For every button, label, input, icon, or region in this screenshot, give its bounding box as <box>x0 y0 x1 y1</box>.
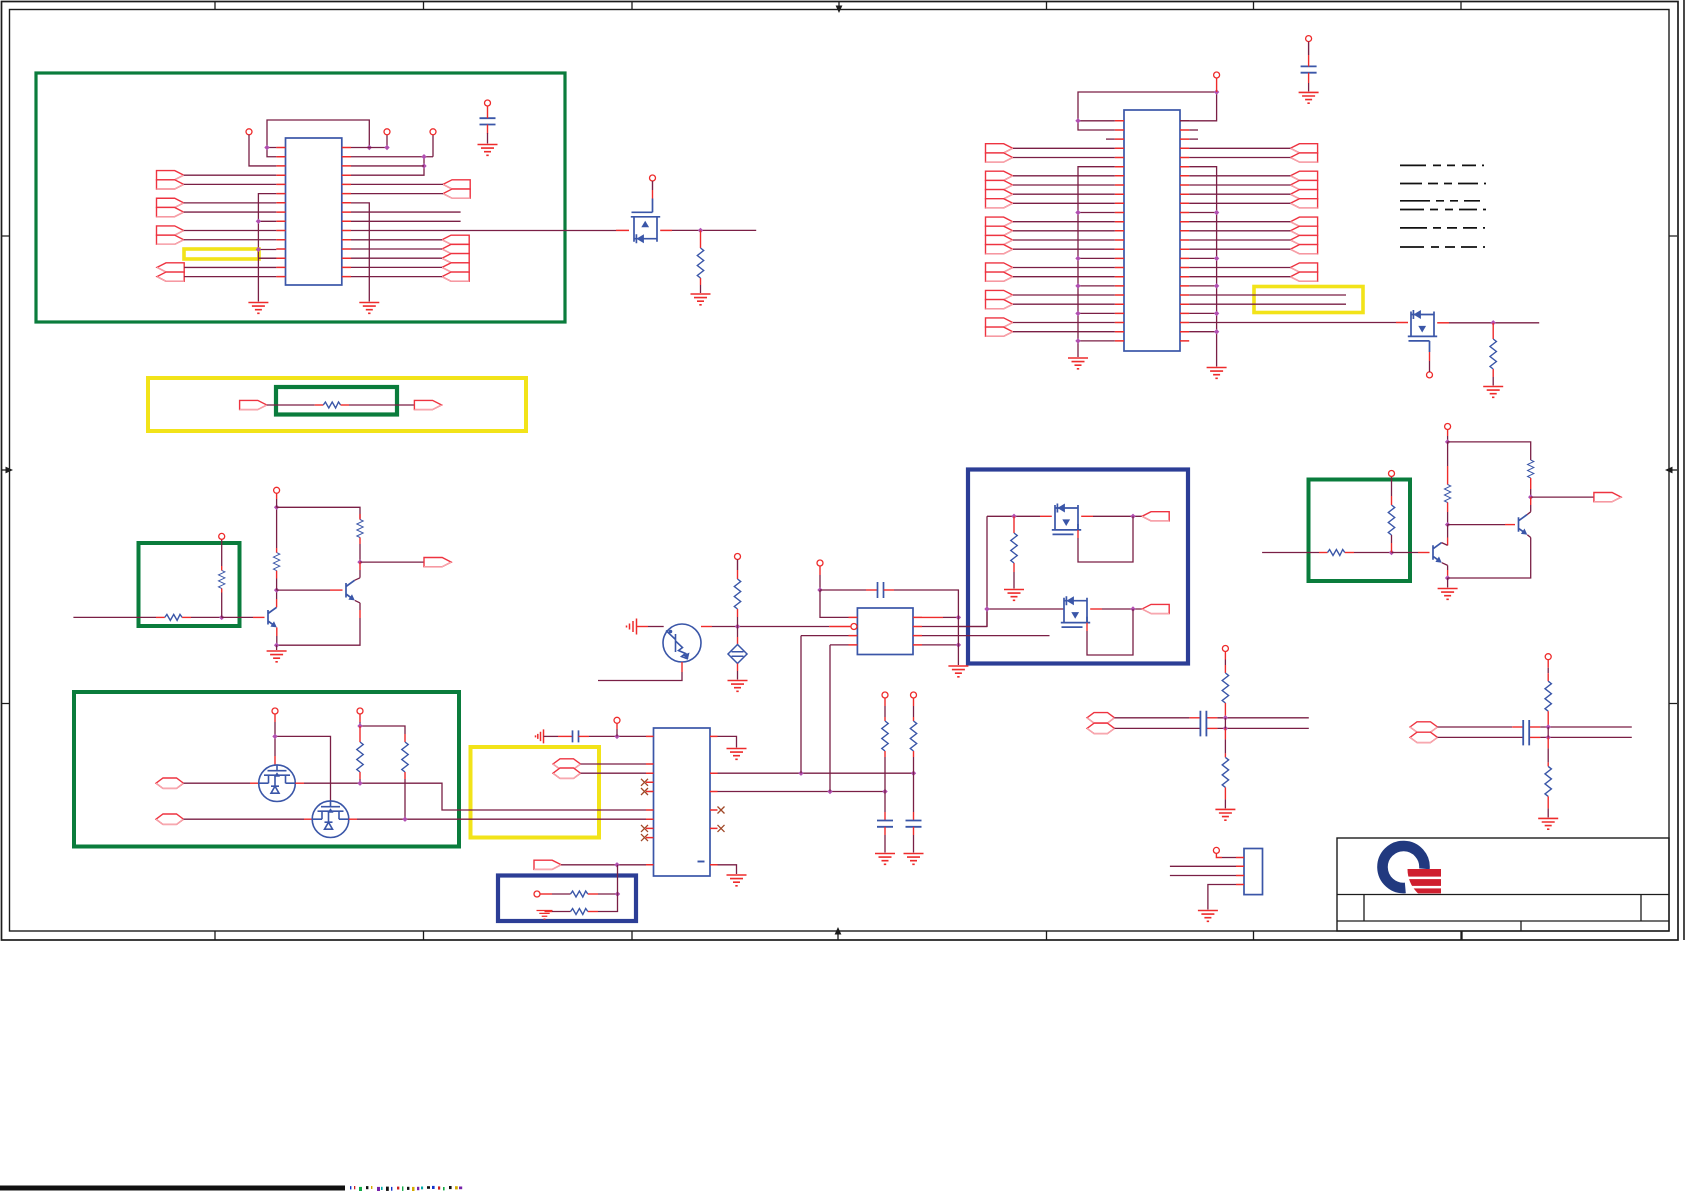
wire U2 pin21 stub (yellow box) <box>1189 303 1346 305</box>
wire top row right pair <box>1448 442 1531 460</box>
wire U1 right pin9 stub <box>351 220 461 222</box>
resistor R7 leads <box>359 514 361 520</box>
wire right pair gnd stem <box>1447 578 1449 588</box>
wire crossL vbot2 <box>1224 787 1226 799</box>
wire U3 right top gnd <box>718 736 737 747</box>
wire series left <box>267 404 315 406</box>
wire R4 to node <box>182 616 191 618</box>
junction M1 gate node <box>272 734 277 739</box>
resistor crossL bottom <box>1222 757 1228 787</box>
wire R6 top <box>276 548 278 553</box>
resistor R18 <box>1528 460 1534 478</box>
port M2 in <box>156 814 184 824</box>
wire U3 right p2 <box>718 772 914 774</box>
wire U4 pinA <box>820 590 849 617</box>
capacitor crossL <box>1200 711 1206 737</box>
wire U1 pin10 <box>184 230 277 232</box>
pin divider <box>534 891 540 897</box>
ground R10 <box>875 854 895 865</box>
wire node to Q4 base <box>222 616 253 618</box>
wire series right <box>341 404 349 406</box>
port group D (U1 left pins14-15) <box>157 263 184 272</box>
wire U1 pin5 <box>184 183 277 185</box>
pin C1 top <box>485 100 491 106</box>
junction U1 gnd pin9 <box>256 219 261 224</box>
border zone ticks top <box>215 2 1461 10</box>
resistor R11 <box>910 721 916 751</box>
wire J1 p3 <box>1170 875 1236 877</box>
wire U3 in2 <box>581 772 647 774</box>
junction U2 right gnd p16 <box>1214 256 1219 261</box>
top center arrow marker <box>838 2 840 7</box>
junction U2 right gnd p19 <box>1214 283 1219 288</box>
IC U1 <box>286 138 342 285</box>
junction U2 right gnd p11 <box>1214 210 1219 215</box>
sheet inner border <box>10 10 1670 932</box>
notes dashed text block <box>1400 165 1486 247</box>
port group A (U1 left pins4-5) <box>157 171 184 180</box>
wire M4 out <box>1090 608 1102 610</box>
port group C (U1 left pins10-11) <box>157 226 184 235</box>
resistor R5 leads <box>221 593 223 618</box>
U2 top loop wire <box>1078 92 1217 130</box>
wire C3 to U3 <box>579 735 590 737</box>
junction Q3 node <box>735 624 740 629</box>
wire bottom row right pair <box>1448 542 1531 578</box>
ground divider <box>537 911 553 920</box>
port series in <box>240 400 267 409</box>
junction U2 left gnd p11 <box>1075 210 1080 215</box>
junction R8 node <box>357 723 362 728</box>
junction divider node <box>615 891 620 896</box>
resistor R3 <box>323 402 340 408</box>
junction crossR b <box>1546 735 1551 740</box>
junction U4 rightD <box>956 642 961 647</box>
wire R16 to node <box>1345 552 1354 554</box>
pin R6 vcc <box>274 487 280 493</box>
pin R17 vcc <box>1389 471 1395 477</box>
wire J1 p4 gnd <box>1208 885 1236 910</box>
bottom center arrow marker <box>837 934 839 940</box>
wire output port Q5 <box>360 561 424 563</box>
wire R17 top lead <box>1391 496 1393 505</box>
port crossL a <box>1087 713 1115 723</box>
junction R17 node <box>1389 550 1394 555</box>
junction U4 rightA <box>956 615 961 620</box>
wire U4 rightB <box>922 626 987 628</box>
pin C2 <box>1306 36 1312 42</box>
wire Q3 base <box>637 626 649 628</box>
ground R2 <box>1483 387 1503 398</box>
wire Q2 drain <box>1437 322 1449 324</box>
wire U1 right pin14 <box>351 266 442 268</box>
pin Q2 gate <box>1427 372 1433 378</box>
resistor R10 <box>882 721 888 751</box>
pin crossR top <box>1545 654 1551 660</box>
wire Q4 base to Q5 <box>277 589 330 591</box>
wire R10 bottom <box>884 827 886 835</box>
junction U2 right gnd p22 <box>1214 311 1219 316</box>
scan artifact text smudges <box>350 1186 351 1189</box>
wire C1 <box>487 106 489 118</box>
port M1 in <box>156 778 184 788</box>
wire Q6 base link down <box>1447 525 1449 538</box>
ground crossR <box>1538 818 1558 829</box>
wire U1 pin10 to Q1 <box>351 230 616 232</box>
wire R11 bottom <box>913 827 915 835</box>
no-connect U3 right p5 <box>718 825 725 832</box>
ground U2 right <box>1207 368 1227 379</box>
wire U1 right pin8 stub <box>351 211 461 213</box>
MOSFET M1 <box>259 765 296 802</box>
wire navy feed <box>958 516 1064 626</box>
wire R9 bottom <box>404 772 406 779</box>
right center arrow marker <box>1672 469 1677 471</box>
port U3 in1 <box>553 759 581 769</box>
wire Q5 emitter <box>355 600 360 610</box>
U2 left ground bus <box>1078 167 1115 357</box>
port stack U2 right <box>1290 144 1317 153</box>
yellow highlight box on U1 pin12 wire <box>184 249 259 259</box>
wire R8 top net <box>359 714 361 722</box>
wire Q4 collector <box>276 599 278 607</box>
pin J1 p1 <box>1213 847 1219 853</box>
ground transistor pair <box>267 651 287 662</box>
green highlight box around left base resistor <box>139 543 240 626</box>
junction U2 left gnd p25 <box>1075 338 1080 343</box>
wire gnd to R13 <box>545 911 553 913</box>
wire crossR rowa <box>1438 726 1513 728</box>
port group E (U1 right pins5-6) <box>443 180 470 189</box>
wire R17 bottom lead <box>1391 543 1393 553</box>
resistor R12 <box>571 891 588 897</box>
port series out <box>414 400 441 409</box>
power bars symbol U3 <box>536 729 544 743</box>
wire U1 pin7 <box>184 202 277 204</box>
junction crossL b <box>1223 726 1228 731</box>
wire crossR vtop <box>1547 660 1549 668</box>
wire U4 rightD <box>922 644 958 646</box>
wire D1 bottom <box>737 664 739 672</box>
wire Q7 base <box>1448 524 1505 526</box>
junction R5 node <box>219 615 224 620</box>
wire U1 right pin3 <box>351 165 424 167</box>
U4 right pin stubs <box>913 617 922 645</box>
wire crossL vmid <box>1224 703 1226 718</box>
wire cap C4 left <box>820 589 866 591</box>
wire U1 pin14 <box>184 266 276 268</box>
pin U3 pwr <box>614 717 620 723</box>
junction M2-R9 <box>402 817 407 822</box>
wire U1 right pin15 <box>351 276 442 278</box>
U3 label dash <box>698 861 705 863</box>
resistor R9 <box>402 742 408 772</box>
resistor R15 leads <box>1013 516 1015 533</box>
junction M3 out <box>1130 514 1135 519</box>
wire R14 bottom <box>737 609 739 617</box>
junction crossR a <box>1546 724 1551 729</box>
wire R8 bottom <box>359 772 361 779</box>
wire J1 p2 <box>1170 865 1236 867</box>
port navy out1 <box>1142 512 1169 521</box>
IC U3 <box>654 728 711 876</box>
ground U1 right <box>359 303 379 314</box>
junction navy R15 <box>1011 514 1016 519</box>
junction U2 pin1 left <box>1075 118 1080 123</box>
green highlight box around MOSFET pair <box>74 692 459 847</box>
wire src D1 top <box>737 627 739 638</box>
U4 inverting pin bubble <box>851 624 857 630</box>
ground right pair <box>1438 589 1458 600</box>
wire vcc node to R7 <box>277 507 360 518</box>
U4 left pin stubs <box>849 617 858 645</box>
junction p3-R10 <box>882 789 887 794</box>
ground R11 <box>904 854 924 865</box>
title block outline <box>1337 838 1669 931</box>
capacitor C-R10 <box>877 821 893 827</box>
ground C2 <box>1299 92 1319 103</box>
junction U2 left gnd p22 <box>1075 311 1080 316</box>
wire U1 right pin6 <box>351 193 443 195</box>
junction U1 pin1 left <box>264 145 269 150</box>
junction U2 right gnd p24 <box>1214 329 1219 334</box>
wire crossR vbot <box>1547 737 1549 748</box>
transistor Q3 (thermal sensor) <box>663 624 701 662</box>
wire U1 pin15 <box>184 276 276 278</box>
wire U3 right p3 <box>718 791 886 793</box>
border zone ticks right <box>1669 236 1677 704</box>
junction M1-R8 <box>357 781 362 786</box>
IC U4 <box>857 608 913 655</box>
green highlight box around right base resistor <box>1309 480 1411 582</box>
wire crossR vbot2 <box>1547 796 1549 808</box>
wire U3 bottom <box>561 864 617 866</box>
wire U3 pwr pin stem <box>616 723 618 729</box>
resistor R15 <box>1011 533 1017 563</box>
junction U1 right pin1 <box>367 145 372 150</box>
U2 right pin stubs <box>1180 121 1189 341</box>
wire U4 vcc stem <box>819 566 821 575</box>
junction U2 left gnd p19 <box>1075 283 1080 288</box>
resistor R8 <box>357 742 363 772</box>
wire Q3 emitter <box>681 662 683 672</box>
wire x801 vertical <box>801 636 849 774</box>
wire U1 right pin5 <box>351 183 443 185</box>
U1 right pin stubs <box>342 148 351 277</box>
wire Q6 vcc stem <box>1447 430 1449 437</box>
wire U1 pin8 <box>184 211 277 213</box>
wire U2 pin3 stub right <box>1189 138 1198 140</box>
transistor Q6 (NPN) <box>1433 543 1442 562</box>
yellow highlight box on U3 input ports <box>471 747 600 838</box>
wire Q4 emitter <box>276 627 278 636</box>
logo ring <box>1383 846 1425 888</box>
junction navy gate2 <box>984 606 989 611</box>
ground C1 <box>478 145 498 156</box>
wire right pair feed <box>1262 552 1319 554</box>
junction U1 right pin2 <box>421 154 426 159</box>
chassis symbol Q3 <box>627 619 637 635</box>
wire out right pair <box>1531 496 1594 498</box>
IC U2 <box>1124 110 1180 351</box>
wire R11 mid <box>913 751 915 757</box>
wire M1 gate net <box>274 714 276 722</box>
junction U1 right pin3 <box>421 163 426 168</box>
pin crossL top <box>1222 646 1228 652</box>
U3 left pin stubs <box>646 736 654 864</box>
yellow highlight box on U2 pins <box>1254 287 1363 313</box>
wire M2 in <box>184 818 305 820</box>
transistor Q4 (NPN) <box>268 607 277 626</box>
transistor Q1 (P-MOSFET) <box>631 212 660 243</box>
wire Q5 collector <box>355 570 360 580</box>
wire R11 top <box>913 698 915 706</box>
wire U1 pin3 from pin <box>249 135 276 166</box>
junction Q7 base node <box>1445 522 1450 527</box>
wire M4 source loop <box>1086 623 1088 631</box>
resistor R5 <box>219 570 225 588</box>
wire U3 in1 <box>581 763 647 765</box>
junction R6 top node <box>274 505 279 510</box>
junction p3-x830 <box>827 789 832 794</box>
wire U2 pin20 stub (yellow box) <box>1189 294 1346 296</box>
wire crossR link <box>1547 727 1549 737</box>
wire U2 pin3 stub left <box>1106 138 1115 140</box>
yellow highlight box around series resistor <box>148 378 526 431</box>
junction emitter gnd node <box>274 643 279 648</box>
wire U2 vcc pin stem <box>1216 78 1218 92</box>
ground D1 <box>728 681 748 692</box>
sheet outer border <box>2 2 1679 941</box>
wire M1 in <box>184 782 251 784</box>
wire x830 vertical <box>830 645 849 792</box>
MOSFET M4 <box>1061 596 1090 627</box>
resistor R6 <box>273 553 279 571</box>
junction p2-x801 <box>798 771 803 776</box>
resistor crossL top <box>1222 673 1228 703</box>
border zone ticks bottom <box>215 931 1461 940</box>
wire crossR rowb <box>1438 736 1524 738</box>
U2 right ground bus <box>1189 167 1216 367</box>
wire R12 to node <box>588 893 598 895</box>
ground U1 left <box>248 303 268 314</box>
resistor R14 <box>734 579 740 609</box>
current source D1 <box>728 645 747 664</box>
wire crossL vbot <box>1224 728 1226 739</box>
port transistor out <box>424 558 451 567</box>
wire U4 rightC stub <box>922 635 1050 637</box>
navy highlight box around divider resistors <box>498 876 636 922</box>
wire crossR vmid <box>1547 711 1549 727</box>
wire x958 vertical <box>957 612 959 665</box>
wire R19 bottom lead <box>1447 503 1449 513</box>
J1 pin stubs <box>1236 858 1244 885</box>
wire node to Q6 <box>1392 552 1419 554</box>
pin Q6 vcc <box>1445 424 1451 430</box>
resistor R4 <box>165 614 182 620</box>
junction Q4 collector node <box>274 587 279 592</box>
port crossL b <box>1087 723 1115 733</box>
wire M3 source loop <box>1077 530 1079 538</box>
U1 right ground wire <box>351 203 369 302</box>
junction out node right pair <box>1528 494 1533 499</box>
pin R5 top <box>219 533 225 539</box>
junction Q5 collector node <box>357 559 362 564</box>
U1 left pin stubs <box>276 148 285 277</box>
page edge artifact line <box>1683 0 1685 940</box>
wire divider node up <box>617 865 619 894</box>
pin VCC U1 right1 <box>384 129 390 135</box>
U2 left pin stubs <box>1115 121 1124 341</box>
scan artifact bottom bar <box>0 1186 345 1191</box>
capacitor C-R11 <box>906 821 922 827</box>
wire Q6 collector vertical <box>1447 442 1449 466</box>
wire R13 to node <box>588 911 598 913</box>
no-connect U3 left p4 <box>641 779 648 786</box>
wire crossL rowa <box>1115 717 1190 719</box>
resistor R1 leads <box>700 230 702 248</box>
junction U4 cap node <box>817 587 822 592</box>
transistor Q5 (NPN) <box>346 580 355 599</box>
wire R8 stem <box>359 726 361 742</box>
wire U1 right pin13 <box>351 257 442 259</box>
wire U2 pin2 stub right <box>1189 129 1198 131</box>
U1 left ground bus wire <box>258 194 276 302</box>
wire Q6 emitter <box>1442 563 1448 570</box>
wire U1pin10 red seg <box>616 229 629 231</box>
wire Q4 coll to R <box>276 579 278 591</box>
ground U2 left <box>1068 358 1088 369</box>
wire pwr to C3 <box>544 735 559 737</box>
ground U3 right bottom <box>727 875 747 886</box>
wire U1 pin13 branch <box>258 257 276 259</box>
resistor R16 <box>1328 550 1345 556</box>
wire Q3 to node <box>701 626 712 628</box>
junction U3 pwr <box>614 734 619 739</box>
ground U3 right top <box>727 749 747 760</box>
capacitor C1 <box>480 118 496 124</box>
junction crossL a <box>1223 715 1228 720</box>
wire U1 right pin2 net <box>351 135 433 175</box>
junction right pair gnd <box>1445 575 1450 580</box>
wire C2 <box>1308 42 1310 55</box>
resistor crossR top <box>1545 681 1551 711</box>
wire crossL rowb <box>1115 727 1201 729</box>
ground x958 <box>948 666 968 677</box>
pin Q1 gate <box>650 175 656 181</box>
ground J1 <box>1198 911 1218 922</box>
resistor crossR bottom <box>1545 766 1551 796</box>
port crossR a <box>1410 722 1438 732</box>
wire R18 bottom lead <box>1530 478 1532 489</box>
pin R10 <box>882 692 888 698</box>
wire R6 pin stem <box>276 493 278 499</box>
ground R1 <box>691 294 711 305</box>
port navy out2 <box>1142 604 1169 613</box>
transistor Q7 (NPN) <box>1519 515 1528 534</box>
junction p2-R11 <box>911 771 916 776</box>
port right pair out <box>1594 493 1621 502</box>
wire cap C4 right <box>884 589 895 591</box>
wire R10 top <box>884 698 886 706</box>
resistor R17 <box>1388 505 1394 535</box>
wire crossL link <box>1224 718 1226 729</box>
resistor R2 <box>1490 339 1496 369</box>
resistor R2 leads <box>1492 323 1494 339</box>
capacitor C3 <box>573 730 579 742</box>
wires U2 left ports <box>1013 148 1115 331</box>
wire Q4 base in <box>73 616 156 618</box>
